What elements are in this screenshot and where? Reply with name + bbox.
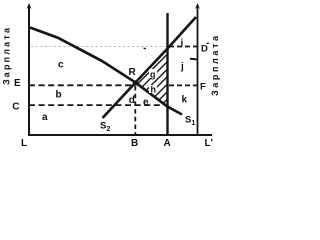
svg-text:D: D: [201, 44, 208, 55]
speck near D level: [144, 47, 147, 50]
svg-text:i: i: [181, 38, 184, 49]
faint dotted line at D level (left part): [31, 46, 166, 48]
svg-text:b: b: [56, 90, 62, 101]
dashed vertical line at B: [134, 86, 136, 135]
svg-text:E: E: [14, 78, 21, 89]
svg-text:c: c: [58, 60, 64, 71]
bottom horizontal axis: [28, 134, 212, 136]
vertical line at A: [166, 13, 168, 136]
svg-text:j: j: [180, 62, 184, 73]
svg-text:S: S: [185, 115, 191, 126]
white chips behind g and h labels: [149, 69, 157, 78]
svg-text:S: S: [100, 121, 106, 132]
svg-text:d: d: [129, 95, 135, 106]
svg-text:g: g: [150, 70, 156, 80]
svg-text:L: L: [21, 138, 27, 148]
short dark mark near right axis: [190, 58, 197, 61]
svg-text:h: h: [151, 85, 157, 95]
left axis arrowhead: [27, 3, 32, 9]
node R junction blob: [133, 80, 138, 85]
svg-text:R: R: [129, 67, 137, 78]
svg-text:A: A: [164, 138, 171, 148]
dashed line E level: [29, 84, 135, 86]
right axis arrowhead: [195, 3, 200, 9]
svg-text:B: B: [131, 138, 138, 148]
supply curve S2 (ascending): [103, 17, 197, 118]
left vertical axis: [28, 5, 30, 136]
right vertical axis: [197, 5, 199, 136]
speck right of D label: [207, 42, 210, 44]
svg-text:L': L': [205, 138, 214, 148]
dashed line F level: [169, 84, 197, 86]
dashed line C level: [29, 104, 162, 106]
svg-text:C: C: [12, 102, 19, 113]
svg-text:2: 2: [107, 126, 111, 133]
svg-text:e: e: [143, 97, 149, 108]
hatched area g h (between S2, demand curve and A line): [104, 40, 213, 131]
svg-text:1: 1: [192, 120, 196, 127]
svg-text:k: k: [182, 95, 188, 106]
svg-text:a: a: [42, 112, 48, 123]
svg-text:F: F: [200, 81, 206, 92]
demand curve (descending, labelled S1 at end): [30, 28, 182, 115]
dashed line i-D level: [169, 46, 197, 48]
